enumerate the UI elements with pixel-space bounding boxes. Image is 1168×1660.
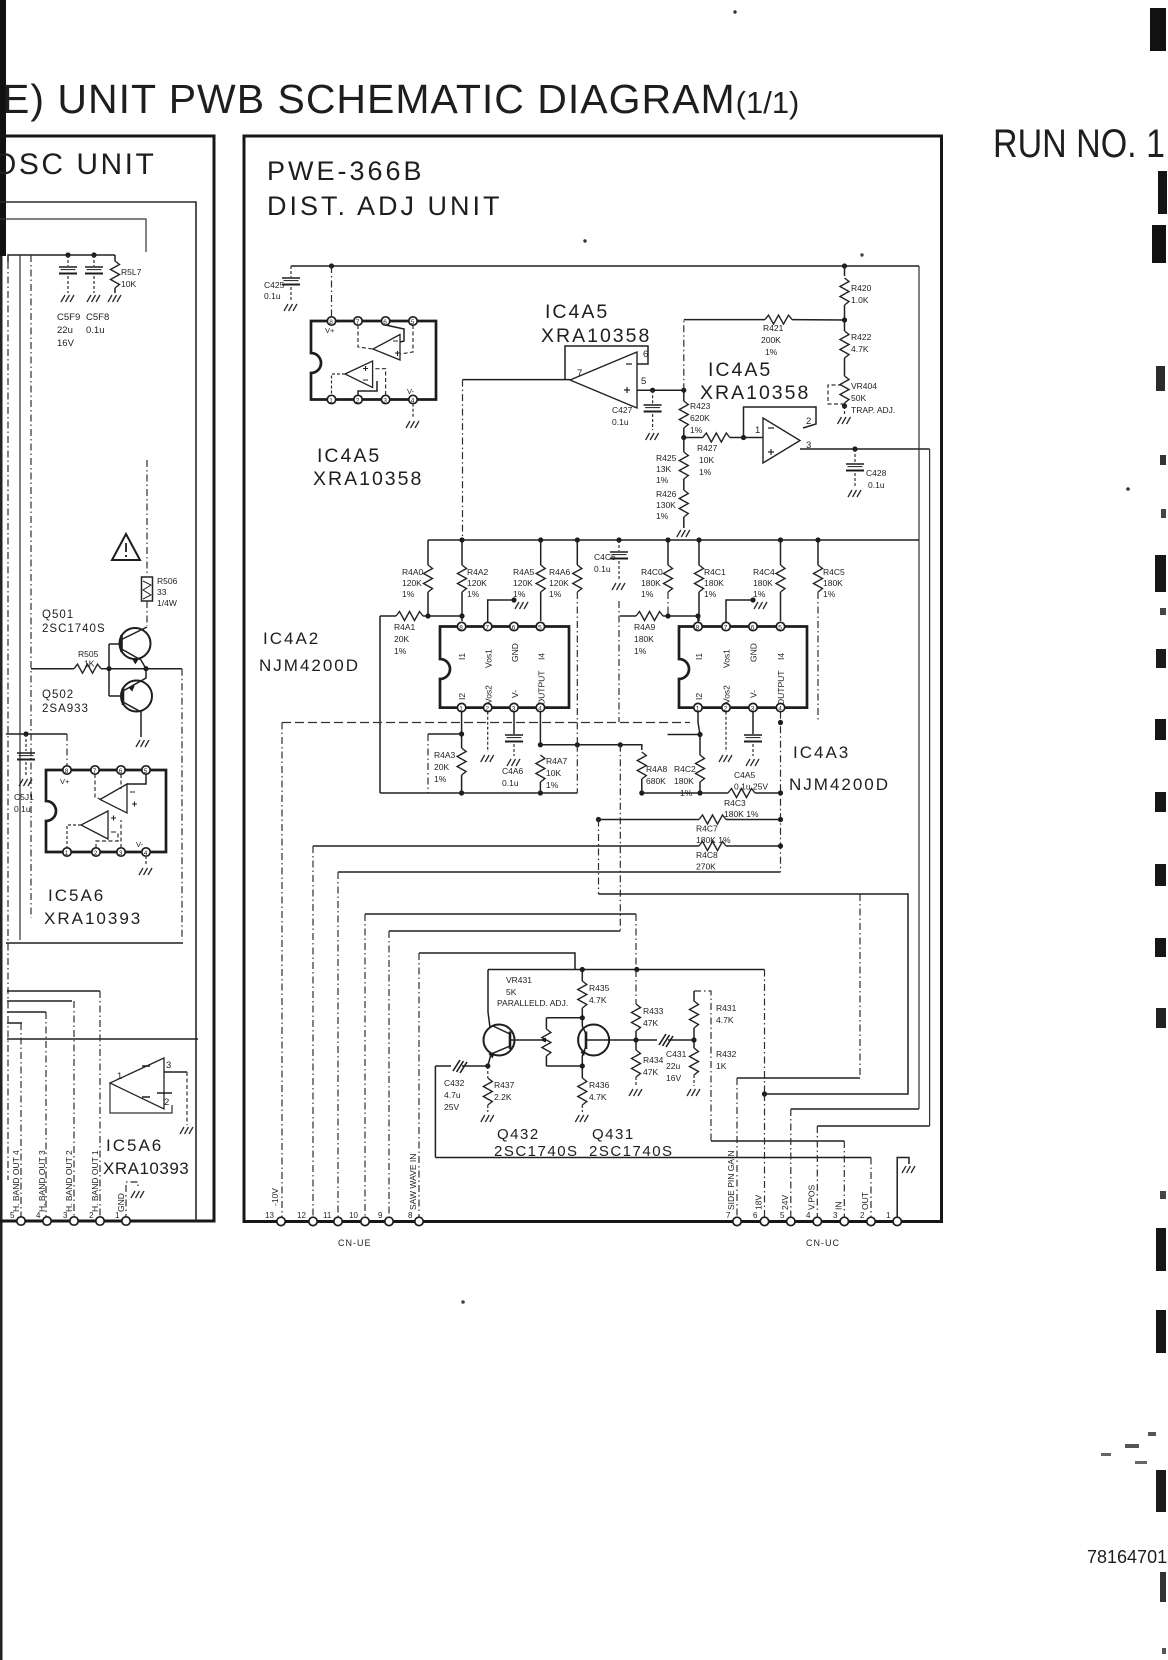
svg-text:IC4A5: IC4A5 [708,359,772,381]
svg-text:V+: V+ [325,326,335,335]
resistor R5L7 [114,255,116,261]
svg-text:4: 4 [778,705,782,712]
wire R506 to Q501 [146,601,148,626]
svg-text:OUTPUT: OUTPUT [537,671,547,706]
svg-text:8: 8 [408,1211,413,1220]
wire pin2 bracket [96,833,118,848]
wire pin7 drop [736,1078,738,1221]
wire pin1 IC4A2 drop [461,712,463,734]
pin 6 [117,766,125,774]
page border scan edge left [0,0,6,256]
transistor Q502 [121,681,152,712]
svg-text:0.1u: 0.1u [502,778,519,788]
svg-text:Vos2: Vos2 [722,685,732,704]
wire pin10 drop [364,914,366,1221]
svg-text:1%: 1% [546,780,559,790]
svg-text:16V: 16V [666,1073,681,1083]
svg-text:R4A8: R4A8 [646,764,668,774]
wire bus y953 [419,953,575,970]
svg-text:120K: 120K [513,578,533,588]
resistor R505 wire [31,668,74,670]
svg-text:I2: I2 [694,693,704,700]
resistor R4A2 [461,540,463,565]
wire transistor rail [488,969,765,971]
svg-text:180K: 180K [704,578,724,588]
svg-text:RUN NO. 1: RUN NO. 1 [993,122,1165,166]
wire supply top [8,255,115,262]
svg-text:C4C6: C4C6 [594,552,616,562]
svg-text:R4C2: R4C2 [674,764,696,774]
svg-text:180K: 180K [634,634,654,644]
wire pin7 op-amp A [358,325,373,349]
svg-text:3: 3 [383,397,387,404]
svg-text:25V: 25V [444,1102,459,1112]
resistor R4A9 [620,615,636,617]
wire V+ feed [6,733,67,735]
ground Q502 [136,740,149,747]
op-amp B triangle [81,811,108,839]
resistor R4A5 [540,540,542,565]
pin 7 IC4A3 [722,622,730,630]
svg-text:3: 3 [119,850,123,857]
svg-text:2: 2 [485,705,489,712]
svg-text:I2: I2 [457,693,467,700]
svg-text:1: 1 [459,705,463,712]
svg-text:R4A2: R4A2 [467,567,489,577]
svg-text:3: 3 [512,705,516,712]
svg-text:3: 3 [751,705,755,712]
svg-text:1%: 1% [394,646,407,656]
wire top rail [291,265,919,267]
svg-text:V-: V- [136,840,144,849]
pin 5 [142,766,150,774]
connector pin 3 [70,1217,78,1225]
wire pin2 bracket [358,381,377,395]
wire Vos1 gnd bracket IC4A3 [726,600,753,622]
svg-text:1%: 1% [656,475,669,485]
ground pin4 [145,856,147,866]
capacitor C427 [652,390,654,404]
svg-text:IC4A3: IC4A3 [793,743,850,762]
ground op-amp [180,1127,193,1134]
wire op-amp in2 [142,1093,172,1097]
svg-text:180K 1%: 180K 1% [724,809,759,819]
svg-text:10: 10 [349,1211,358,1220]
resistor R422 [844,320,846,331]
potentiometer VR431 [542,1029,551,1056]
svg-text:1%: 1% [753,589,766,599]
connector pin 4 [43,1217,51,1225]
svg-text:2SC1740S: 2SC1740S [494,1143,579,1160]
wire vertical bus 3 [30,255,32,918]
svg-text:5: 5 [411,319,415,326]
svg-text:20K: 20K [394,634,409,644]
svg-text:GND: GND [510,643,520,662]
op-amp IC5A6 second triangle [110,1058,164,1109]
wire pin3 drop [73,1001,75,1221]
svg-text:1%: 1% [513,589,526,599]
svg-text:XRA10393: XRA10393 [103,1159,189,1178]
svg-text:13K: 13K [656,464,671,474]
svg-text:1%: 1% [641,589,654,599]
svg-text:1%: 1% [765,347,778,357]
wire R433 riser [635,914,637,970]
resistor R4A3 [457,748,466,775]
wire pin5 drop [400,325,413,354]
svg-text:Q431: Q431 [592,1126,635,1143]
connector pin 4 [813,1217,821,1225]
svg-text:9: 9 [378,1211,383,1220]
svg-text:4.7K: 4.7K [589,995,607,1005]
svg-text:7: 7 [93,768,97,775]
svg-text:13: 13 [265,1211,274,1220]
resistor R432 [693,1040,695,1048]
wire pin3 stub [120,820,122,848]
wire pin7 to op-amp A [95,774,100,799]
op-amp U IC4A2 package [440,627,569,708]
wire pin4 drop [816,1126,818,1221]
wire pin6 stub [120,774,122,789]
wire pin2 drop [99,991,101,1221]
svg-text:10K: 10K [121,279,136,289]
svg-text:7: 7 [577,368,582,379]
svg-text:180K: 180K [674,776,694,786]
resistor R431 [693,991,695,1001]
pin 8 [63,766,71,774]
svg-text:I4: I4 [537,653,547,660]
svg-text:R420: R420 [851,283,872,293]
pin 3 IC4A3 [749,703,757,711]
wire shelf 4 [7,1011,46,1013]
wire shelf 2 [7,990,100,992]
resistor R4A6 [576,540,578,565]
svg-text:47K: 47K [643,1067,658,1077]
svg-text:0.1u: 0.1u [14,804,31,814]
capacitor C4A5 [752,712,754,734]
svg-text:680K: 680K [646,776,666,786]
svg-text:V.POS: V.POS [807,1184,817,1210]
svg-text:Q502: Q502 [42,689,74,701]
resistor R4C0 [667,540,669,565]
wire op-amp2 +in [637,389,684,391]
resistor R4A8 [637,752,646,779]
inner unit outline [0,202,196,1221]
svg-text:620K: 620K [690,413,710,423]
connector pin 13 [277,1217,285,1225]
svg-text:20K: 20K [434,762,449,772]
svg-text:7: 7 [356,319,360,326]
svg-text:R435: R435 [589,983,610,993]
svg-text:C428: C428 [866,468,887,478]
svg-text:6: 6 [383,319,387,326]
wire IN bus [711,1140,844,1142]
wire V.POS link [817,1125,929,1127]
wire pin5 drop [20,1023,22,1221]
svg-text:2.2K: 2.2K [494,1092,512,1102]
svg-text:7: 7 [724,624,728,631]
wire op-amp2 output [463,379,571,381]
svg-text:33: 33 [157,587,167,597]
svg-text:10K: 10K [699,455,714,465]
connector pin 10 [361,1217,369,1225]
svg-text:PWE-366B: PWE-366B [267,156,425,186]
resistor R420 [844,266,846,276]
svg-text:OSC UNIT: OSC UNIT [0,148,156,181]
svg-text:1: 1 [886,1211,891,1220]
resistor R437 [487,1066,489,1078]
svg-text:C431: C431 [666,1049,687,1059]
pin 1 [327,395,335,403]
wire to pin8 [66,734,68,766]
svg-text:2: 2 [724,705,728,712]
svg-text:XRA10393: XRA10393 [44,909,142,928]
svg-text:H. BAND OUT 4: H. BAND OUT 4 [11,1150,21,1212]
pin 4 IC4A2 [536,703,544,711]
connector pin 9 [385,1217,393,1225]
svg-text:270K: 270K [696,862,716,872]
warning triangle [112,534,140,560]
svg-text:4: 4 [144,850,148,857]
op-amp U IC4A5 package [311,321,436,400]
svg-text:R422: R422 [851,332,872,342]
capacitor C428 [854,449,856,463]
svg-text:R4A9: R4A9 [634,622,656,632]
svg-text:1%: 1% [699,467,712,477]
ground R426 [677,530,690,537]
wire R4A6 tail [576,745,578,793]
svg-text:R433: R433 [643,1006,664,1016]
capacitor C5F8 [93,255,95,266]
resistor R427 [684,437,703,439]
pin 6 IC4A3 [749,622,757,630]
svg-text:8: 8 [696,624,700,631]
svg-text:2SC1740S: 2SC1740S [42,623,106,635]
svg-text:H. BAND OUT 1: H. BAND OUT 1 [90,1150,100,1212]
connector pin 3 [840,1217,848,1225]
wire pin8 drop [418,953,420,1221]
resistor R423 [683,390,685,401]
svg-text:R436: R436 [589,1080,610,1090]
svg-text:2: 2 [860,1211,865,1220]
svg-text:4.7K: 4.7K [589,1092,607,1102]
op-amp A triangle [100,784,127,813]
OSC UNIT box border [0,136,214,1221]
svg-text:IC5A6: IC5A6 [48,886,105,905]
pin 2 IC4A3 [722,703,730,711]
resistor R434 [635,1040,637,1050]
svg-text:0.1u: 0.1u [612,417,629,427]
svg-text:3: 3 [166,1060,171,1071]
svg-text:5: 5 [144,768,148,775]
misc specks [733,10,736,13]
svg-text:10K: 10K [546,768,561,778]
connector pin 2 [867,1217,875,1225]
svg-text:1: 1 [65,850,69,857]
pin 5 IC4A2 [536,622,544,630]
wire OUT bus [435,1157,871,1159]
wire base bus [108,644,110,696]
svg-text:V-: V- [749,690,759,698]
svg-text:R4C1: R4C1 [704,567,726,577]
wire C4C6 drop [618,601,620,722]
wire pin5 bracket [127,774,146,784]
wire side gain drop [859,894,861,1078]
wire pin2 drop [870,1158,872,1222]
wire pin5 drop [790,1109,792,1221]
svg-text:NJM4200D: NJM4200D [789,775,890,794]
svg-text:1%: 1% [704,589,717,599]
pin 1 IC4A2 [457,703,465,711]
svg-text:5: 5 [538,624,542,631]
svg-text:1%: 1% [402,589,415,599]
connector pin 1 [122,1217,130,1225]
connector pin 12 [309,1217,317,1225]
op-amp 3 triangle [763,418,800,463]
svg-text:6: 6 [119,768,123,775]
svg-text:CN-UC: CN-UC [806,1238,840,1248]
svg-text:4.7K: 4.7K [716,1015,734,1025]
resistor R4C3 [642,792,728,794]
svg-text:4: 4 [806,1211,811,1220]
svg-text:1K: 1K [716,1061,727,1071]
svg-text:V+: V+ [60,777,70,786]
svg-text:Q432: Q432 [497,1126,540,1143]
capacitor C425 [290,266,292,277]
svg-text:180K: 180K [641,578,661,588]
svg-text:5: 5 [778,624,782,631]
ground pin2 IC4A3 [725,712,727,752]
resistor R433 [635,970,637,1004]
wire mid rail [428,539,919,541]
wire stub I2 [668,734,701,736]
wire output drop to block [462,380,464,540]
svg-text:R437: R437 [494,1080,515,1090]
svg-text:XRA10358: XRA10358 [313,468,423,490]
svg-text:R5L7: R5L7 [121,267,142,277]
pin 3 [381,395,389,403]
svg-text:R426: R426 [656,489,677,499]
svg-text:22u: 22u [57,325,73,336]
ground VR404 [844,406,846,415]
resistor R421 feedback [683,320,685,391]
wire feedback bracket op-amp3 [744,407,817,438]
ground pin4 [412,404,414,418]
resistor R4C5 [817,540,819,565]
connector pin 5 [17,1217,25,1225]
svg-text:2SA933: 2SA933 [42,703,89,715]
svg-text:0.1u: 0.1u [264,291,281,301]
wire right vertical [181,669,183,940]
wire stub left [428,733,462,735]
svg-text:50K: 50K [851,393,866,403]
svg-text:C4A5: C4A5 [734,770,756,780]
pin 2 [354,395,362,403]
svg-text:-10V: -10V [270,1188,280,1206]
svg-text:78164701: 78164701 [1087,1547,1167,1567]
svg-text:200K: 200K [761,335,781,345]
pin 8 IC4A2 [457,622,465,630]
svg-text:R4C8: R4C8 [696,850,718,860]
svg-text:C432: C432 [444,1078,465,1088]
wire 24V rail [918,266,920,1109]
svg-text:TRAP. ADJ.: TRAP. ADJ. [851,405,895,415]
svg-text:180K: 180K [823,578,843,588]
connector pin 2 [96,1217,104,1225]
op-amp 2 triangle [570,352,637,408]
wire pin1 output [332,374,346,395]
svg-text:OUTPUT: OUTPUT [776,671,786,706]
wire pin3 drop [373,369,386,395]
svg-text:R4A7: R4A7 [546,756,568,766]
svg-text:12: 12 [297,1211,306,1220]
svg-text:180K: 180K [753,578,773,588]
svg-text:IN: IN [834,1202,844,1211]
svg-text:1: 1 [696,705,700,712]
svg-text:PARALLELD. ADJ.: PARALLELD. ADJ. [497,998,568,1008]
wire R431 top hook [694,991,711,1141]
wire op-amp frame [110,1083,172,1113]
svg-text:GND: GND [116,1193,126,1212]
resistor R4C8 [313,845,699,847]
resistor R4C2 [699,735,701,756]
connector pin 1 [893,1217,901,1225]
svg-text:0.1u: 0.1u [594,564,611,574]
svg-text:SAW WAVE IN: SAW WAVE IN [408,1154,418,1210]
wire pin12 drop [312,846,314,1221]
resistor R425 [683,438,685,453]
svg-text:4.7u: 4.7u [444,1090,461,1100]
svg-text:1.0K: 1.0K [851,295,869,305]
svg-text:2: 2 [356,397,360,404]
svg-text:IC4A5: IC4A5 [317,445,381,467]
svg-text:120K: 120K [467,578,487,588]
svg-text:0.1u: 0.1u [86,325,105,336]
svg-text:IC4A5: IC4A5 [545,301,609,323]
svg-text:R4A0: R4A0 [402,567,424,577]
wire long dash rail [282,722,690,724]
svg-text:7: 7 [485,624,489,631]
svg-text:DIST. ADJ UNIT: DIST. ADJ UNIT [267,191,503,221]
ground pin1 hook [126,1182,138,1221]
pin 4 [142,848,150,856]
svg-text:E) UNIT PWB SCHEMATIC DIAGRAM(: E) UNIT PWB SCHEMATIC DIAGRAM(1/1) [2,76,799,122]
svg-text:5K: 5K [506,987,517,997]
svg-text:1: 1 [329,397,333,404]
wire shelf 5 [7,1022,22,1024]
pin 5 [409,317,417,325]
potentiometer VR404 [840,376,849,403]
op-amp U IC4A3 package [679,627,807,708]
svg-text:R4A6: R4A6 [549,567,571,577]
resistor R436 [581,1066,583,1078]
svg-text:Q501: Q501 [42,609,74,621]
transistor Q501 [120,628,151,659]
capacitor C431 [657,1033,668,1047]
svg-text:R421: R421 [763,323,784,333]
wire V.POS rail [929,449,931,1126]
svg-text:1%: 1% [549,589,562,599]
wire pin9 drop [388,931,390,1221]
wire rail to pin8 [331,266,333,316]
svg-text:6: 6 [512,624,516,631]
svg-text:120K: 120K [549,578,569,588]
wire R4A8 drop [619,745,621,931]
connector pin 11 [334,1217,342,1225]
capacitor C5J1 [25,734,27,751]
pin 2 [92,848,100,856]
pin 7 [91,766,99,774]
svg-text:C5F9: C5F9 [57,312,80,323]
